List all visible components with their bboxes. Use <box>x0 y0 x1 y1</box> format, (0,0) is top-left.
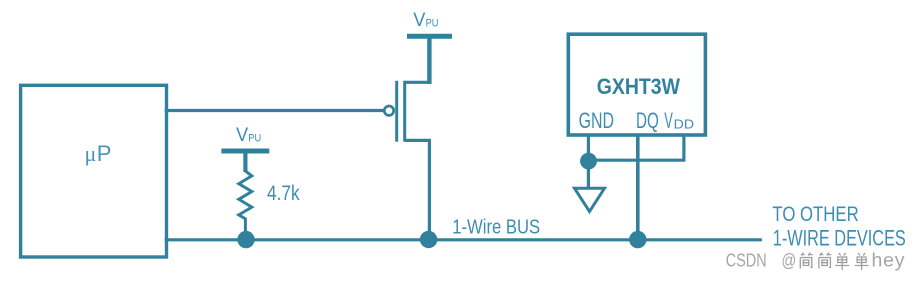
svg-text:V: V <box>664 108 673 133</box>
简 (1) <box>800 253 813 269</box>
wire: VDD pin to GND node <box>592 135 684 160</box>
svg-text:1-Wire BUS: 1-Wire BUS <box>452 215 540 238</box>
transistor Q1 gate bubble <box>384 106 393 115</box>
watermark CJK chars <box>800 253 868 271</box>
power rail bar VPU (resistor) <box>221 149 269 154</box>
transistor Q1 gate bar <box>395 81 398 142</box>
ground symbol <box>575 188 605 211</box>
watermark CSDN <box>726 250 906 272</box>
svg-text:GXHT3W: GXHT3W <box>597 74 680 99</box>
wire: DQ pin down to bus <box>636 135 640 240</box>
transistor Q1 drain arm to VPU rail <box>405 81 430 84</box>
svg-text:DD: DD <box>674 117 694 132</box>
junction dot: transistor source on bus <box>420 231 437 248</box>
microprocessor box uP <box>21 85 167 257</box>
transistor Q1 channel bar <box>403 81 406 142</box>
power rail bar VPU (top) <box>407 34 452 39</box>
svg-text:hey: hey <box>872 250 906 272</box>
svg-text:@: @ <box>782 250 797 271</box>
wire: GND pin down <box>587 135 590 188</box>
svg-text:V: V <box>236 124 248 146</box>
svg-text:PU: PU <box>426 18 439 30</box>
svg-text:GND: GND <box>579 108 614 133</box>
svg-text:μP: μP <box>85 141 112 166</box>
junction dot: GND node <box>580 153 597 170</box>
单 (2) <box>855 253 869 270</box>
wire: 1-Wire bus <box>165 238 762 241</box>
svg-text:TO OTHER: TO OTHER <box>772 203 858 226</box>
svg-text:PU: PU <box>248 133 261 145</box>
resistor R1 4.7k <box>243 152 247 172</box>
svg-text:V: V <box>413 9 425 31</box>
transistor Q1 source arm down to bus <box>405 140 430 239</box>
svg-text:DQ: DQ <box>636 108 659 133</box>
单 (1) <box>835 253 849 270</box>
svg-text:1-WIRE DEVICES: 1-WIRE DEVICES <box>773 226 906 251</box>
IC U1 box GXHT3W <box>568 34 705 135</box>
junction dot: resistor on bus <box>237 231 254 248</box>
简 (2) <box>819 253 832 269</box>
svg-text:4.7k: 4.7k <box>267 182 300 205</box>
svg-text:CSDN: CSDN <box>726 250 767 271</box>
junction dot: DQ on bus <box>629 231 646 248</box>
wire: uP to PMOS gate <box>165 109 384 112</box>
